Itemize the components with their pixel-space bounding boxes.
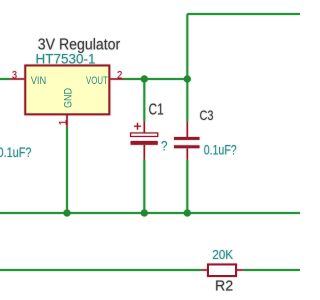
capacitor C1 value ? <box>161 139 168 154</box>
regulator U1 pin name GND (rotated) <box>63 88 75 108</box>
resistor R2 left pin stub <box>201 269 207 271</box>
svg-text:20K: 20K <box>212 248 234 262</box>
capacitor C1 reference <box>149 101 164 118</box>
regulator U1 pin name VIN <box>31 75 47 87</box>
wire: C3 bottom lead down to ground rail <box>186 160 188 213</box>
wire: bottom net right of R2 <box>244 269 300 271</box>
wire: C1 bottom lead down to ground rail <box>143 160 145 213</box>
regulator U1 pin 3 (VIN) line <box>10 78 24 80</box>
junction: VOUT wire / C1 branch <box>141 75 148 82</box>
wire: ground rail horizontal full width <box>0 212 300 214</box>
regulator U1 body <box>25 66 109 115</box>
capacitor C1 bottom plate (filled) <box>131 141 158 145</box>
svg-text:VOUT: VOUT <box>86 75 108 87</box>
regulator U1 pin number 1 (rotated) <box>58 120 70 126</box>
junction: ground rail / C3 <box>184 209 191 216</box>
capacitor C3 top lead <box>186 122 188 137</box>
capacitor C1 top plate (outlined, positive) <box>131 133 158 136</box>
svg-text:C3: C3 <box>200 107 214 123</box>
regulator U1 pin 2 (VOUT) line <box>110 78 123 80</box>
regulator U1 pin number 3 <box>12 70 17 82</box>
svg-text:1: 1 <box>58 120 70 126</box>
capacitor C3 value 0.1uF? <box>204 142 237 158</box>
capacitor C3 bottom lead <box>186 148 188 160</box>
wire: top horizontal net to right edge <box>187 13 300 15</box>
resistor R2 value 20K <box>212 248 234 262</box>
capacitor C3 top plate <box>174 137 200 140</box>
wire: bottom net left of R2 <box>0 269 201 271</box>
svg-text:2: 2 <box>117 69 122 81</box>
svg-text:HT7530-1: HT7530-1 <box>36 52 96 67</box>
svg-text:?: ? <box>161 139 168 154</box>
svg-text:C1: C1 <box>149 101 164 118</box>
capacitor C2 (off-canvas) value 0.1uF? at left edge <box>0 144 32 160</box>
svg-text:0.1uF?: 0.1uF? <box>0 144 32 160</box>
svg-text:GND: GND <box>63 88 75 108</box>
svg-text:0.1uF?: 0.1uF? <box>204 142 237 158</box>
junction: ground rail / C1 <box>141 209 148 216</box>
wire: GND pin wire down to ground rail <box>66 128 68 214</box>
wire: C1 top branch from VOUT wire down to C1 <box>143 79 145 121</box>
wire: long vertical net x=187 from top corner down to C3 top lead <box>186 14 188 122</box>
regulator U1 pin number 2 <box>117 69 122 81</box>
wire: VOUT horizontal wire from pin 2 to vertical net <box>124 78 188 80</box>
regulator U1 value HT7530-1 <box>36 52 96 67</box>
resistor R2 body <box>208 265 236 277</box>
junction: VOUT wire / vertical net <box>184 75 191 82</box>
resistor R2 right pin stub <box>237 269 244 271</box>
capacitor C1 top lead <box>143 121 145 133</box>
regulator U1 pin name VOUT <box>86 75 108 87</box>
svg-text:3: 3 <box>12 70 17 82</box>
regulator U1 pin 1 (GND) line <box>66 115 68 128</box>
capacitor C3 bottom plate <box>174 145 200 148</box>
capacitor C3 reference <box>200 107 214 123</box>
regulator U1 label "3V Regulator" <box>38 37 120 54</box>
capacitor C1 plus sign <box>134 123 141 130</box>
svg-text:VIN: VIN <box>31 75 47 87</box>
capacitor C1 bottom lead <box>143 145 145 160</box>
junction: ground rail / GND pin <box>63 209 70 216</box>
resistor R2 reference <box>215 279 233 295</box>
wire: VIN input wire from left edge to pin 3 <box>0 78 10 80</box>
svg-text:R2: R2 <box>215 279 233 295</box>
